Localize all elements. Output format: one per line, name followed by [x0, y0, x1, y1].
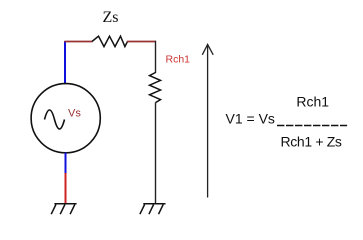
resistor Zs	[92, 36, 128, 46]
svg-text:V1 = Vs: V1 = Vs	[226, 111, 275, 127]
resistor Rch1	[150, 73, 161, 103]
svg-text:Zs: Zs	[103, 9, 119, 26]
ground under source	[51, 204, 76, 215]
wire black right vertical upper	[155, 41, 157, 73]
arrow V1 (vertical, pointing up)	[202, 44, 213, 197]
wire dark red top-left horizontal	[65, 41, 93, 43]
wire black right vertical lower	[155, 103, 157, 204]
formula fraction bar (underscores)	[277, 125, 347, 127]
wire blue left vertical (source top to corner)	[64, 41, 66, 84]
wire blue below source	[65, 153, 67, 174]
ground under Rch1	[140, 204, 166, 215]
wire dark red top-right horizontal	[127, 41, 156, 43]
svg-text:Rch1 + Zs: Rch1 + Zs	[281, 134, 342, 150]
svg-text:Rch1: Rch1	[296, 94, 329, 110]
sine wave inside source	[45, 110, 65, 129]
svg-text:Vs: Vs	[68, 108, 81, 120]
svg-text:Rch1: Rch1	[166, 54, 191, 66]
voltage source Vs circle	[31, 84, 100, 153]
wire red to ground	[65, 173, 67, 204]
